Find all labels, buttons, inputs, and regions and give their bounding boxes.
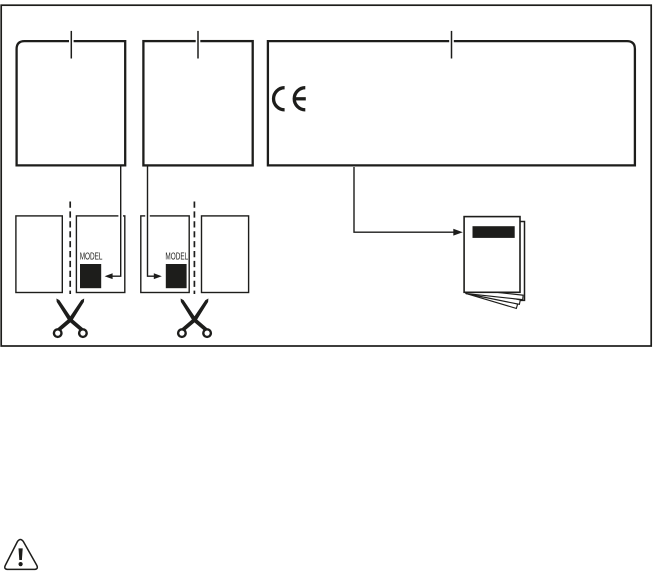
- arrowhead 2 (right): [154, 273, 162, 279]
- leader line from box 1: [110, 166, 121, 276]
- exclamation dot: [19, 562, 23, 566]
- scissors 2: [178, 299, 211, 337]
- arrowhead 3 (right): [453, 229, 463, 236]
- booklet front cover: [464, 217, 520, 293]
- svg-text:MODEL: MODEL: [80, 252, 103, 263]
- cut line 1 (dashed): [69, 202, 71, 295]
- tick mark 3: [451, 31, 453, 59]
- svg-text:MODEL: MODEL: [165, 252, 188, 263]
- booklet title bar: [473, 226, 515, 238]
- booklet fanned page 2: [466, 289, 520, 304]
- label box 2: [143, 41, 252, 165]
- warning triangle: [5, 539, 38, 569]
- booklet fanned page 3: [466, 289, 518, 308]
- leader line from box 3 to booklet: [354, 167, 457, 232]
- model sticker square 2: [166, 264, 187, 288]
- small box C: [141, 216, 189, 293]
- tick mark 1: [70, 31, 72, 59]
- tick mark 2: [197, 31, 199, 59]
- tick gap box 2: [196, 40, 201, 43]
- small box D: [202, 216, 249, 293]
- label box 1 (rating plate, rounded top-left): [17, 41, 126, 165]
- tick gap box 1: [69, 40, 74, 43]
- cut line 2 (dashed): [193, 202, 195, 295]
- crossing gap in box C top edge: [145, 214, 150, 217]
- crossing gap in box B top edge: [118, 214, 123, 217]
- figure frame: [1, 5, 651, 346]
- leader line from box 2: [148, 166, 157, 276]
- booklet fanned page 1: [466, 289, 523, 300]
- tick gap box 3: [449, 40, 454, 43]
- exclamation bar: [19, 548, 23, 560]
- small box A: [16, 216, 62, 293]
- arrowhead 1 (left): [105, 273, 113, 279]
- small box B: [76, 216, 124, 293]
- label box 3 (wide, rounded top-right): [268, 41, 635, 165]
- model sticker square 1: [80, 264, 101, 288]
- booklet back sheet: [469, 222, 525, 301]
- scissors 1: [54, 299, 87, 337]
- CE mark: [274, 88, 306, 110]
